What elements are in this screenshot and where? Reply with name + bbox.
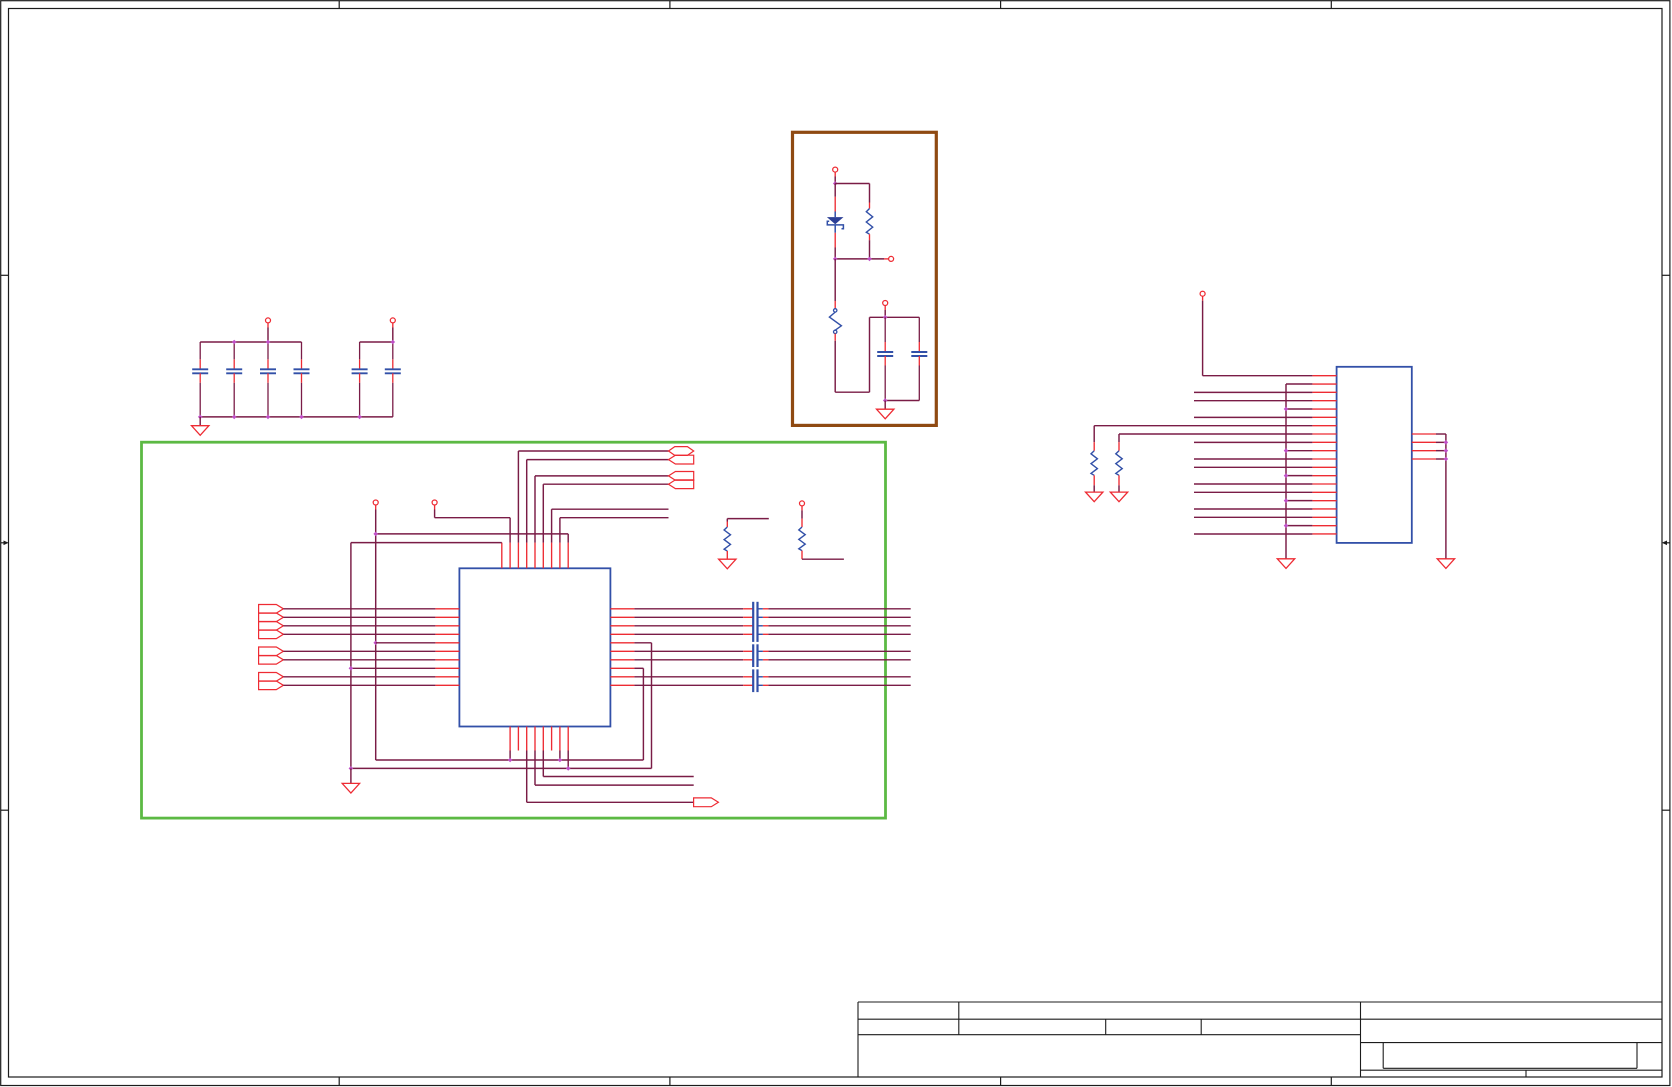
wire series cap 10 out (758, 684, 911, 686)
power port P1 (266, 318, 271, 342)
border mid-right arrow marker (1662, 541, 1670, 546)
wire U1 pin B8 to rail2 (567, 751, 569, 769)
wire U1 pin T5 to arrow (535, 476, 669, 543)
wire U1 right pin 10 to series cap (634, 684, 753, 686)
wire U1 pin T6 to arrow (543, 484, 668, 542)
wire U2 pin 4 (1194, 400, 1312, 402)
wire series cap 7 out (758, 659, 911, 661)
wire U2 pin 2 to bus (1286, 383, 1312, 385)
capacitor C7 (877, 317, 893, 400)
wire thermistor to cap rail (835, 317, 919, 392)
wire U1 right pin 3 to series cap (634, 625, 753, 627)
junction dot P7 L5 (373, 641, 378, 646)
junction dot brown bottom rail (883, 398, 888, 403)
power port P8 (800, 501, 805, 511)
net arrow L1 output (259, 605, 284, 614)
wire U2 pin 9 (1194, 441, 1312, 443)
thermistor R2 (829, 259, 841, 392)
wire U1 right pin 8 down (634, 668, 643, 760)
wire U1 pin B7 to rail1 (559, 751, 561, 761)
wire U1 left pin 5 from P7 (376, 642, 436, 644)
wire series cap 1 out (758, 608, 911, 610)
ground cap bank (192, 417, 209, 435)
wire top rail right group (360, 341, 393, 343)
wire vertical net x350 (350, 543, 352, 769)
junction dots cap bank top rail (232, 340, 395, 345)
net arrow L7 output (259, 656, 284, 665)
power port P5 (883, 301, 888, 318)
junction dots mid rail (833, 257, 872, 262)
wire U1 pin T4 to arrow (527, 460, 669, 543)
wire U1 right pin 7 to series cap (634, 659, 753, 661)
wire U1 right pin 1 to series cap (634, 608, 753, 610)
wire P7 vertical net (375, 510, 377, 761)
wire U1 left pin 6 (283, 650, 435, 652)
net arrow A5 output (694, 798, 719, 807)
power port P6 (432, 500, 437, 505)
wire U1 left pin 7 (283, 659, 435, 661)
net arrow L10 output (259, 681, 284, 690)
junction dots U2 bus (1284, 407, 1289, 528)
green highlight box (142, 442, 886, 818)
IC U2 (1337, 367, 1412, 543)
wire series cap 9 out (758, 676, 911, 678)
wire U1 bottom rail1 (376, 759, 644, 761)
wire U1 pin T8 stub (560, 518, 669, 543)
wire U2 pin 10 to bus (1286, 450, 1312, 452)
net arrow L6 output (259, 647, 284, 656)
power port P2 (390, 318, 395, 342)
power port P7 (373, 500, 378, 510)
wire U1 pin B4 stub (535, 751, 694, 786)
power port P9 (1200, 291, 1205, 301)
border mid-left arrow marker (1, 541, 9, 546)
net arrow A2 input (669, 455, 694, 464)
wire U2 pin 5 to bus (1286, 408, 1312, 410)
capacitor C1 (192, 342, 208, 417)
net arrow A4 input (669, 480, 694, 489)
junction dot P7 T9 (373, 532, 378, 537)
net arrow L4 output (259, 630, 284, 639)
U1 top pin stubs (502, 543, 568, 569)
wire U2 pin 14 (1194, 483, 1312, 485)
net arrow L2 output (259, 613, 284, 622)
wire top rail left group (200, 341, 301, 343)
wire U2 pin 17 (1194, 508, 1312, 510)
wire U1 pin T2 route to port (435, 505, 511, 542)
wire U1 left pin 9 (283, 676, 435, 678)
junction dots U2 right (1444, 440, 1449, 461)
wire U1 left pin 3 (283, 625, 435, 627)
wire top rail diode section (835, 183, 869, 185)
resistor R6 with ground (1110, 434, 1127, 502)
wire mid rail diode section (835, 258, 888, 260)
wire series cap 6 out (758, 650, 911, 652)
wire U2 pin 18 (1194, 516, 1312, 518)
power port P4 (889, 256, 894, 261)
net arrow L9 output (259, 673, 284, 682)
wire P9 to U2 pin1 (1203, 301, 1313, 376)
wire U1 left pin 10 (283, 684, 435, 686)
wire U1 pin B3 to arrow (527, 751, 694, 803)
U2 ground bus vertical (1285, 384, 1287, 559)
capacitor C3 (260, 342, 276, 417)
capacitor C5 (352, 342, 368, 417)
U2 left pin stubs (1312, 376, 1336, 534)
junction dot below P3 (833, 181, 838, 186)
wire U1 right pin 6 to series cap (634, 650, 753, 652)
wire U1 left pin 8 from vertical (351, 667, 436, 669)
wire U1 right pin 2 to series cap (634, 616, 753, 618)
wire U2 pin 6 (1194, 416, 1312, 418)
wire U1 right pin 9 to series cap (634, 676, 753, 678)
capacitor C4 (294, 342, 310, 417)
ground U2 bus (1277, 559, 1294, 569)
power port P3 (833, 167, 838, 183)
U2 right pin stubs (1412, 434, 1436, 459)
zener diode D1 (827, 184, 844, 259)
ground brown box (877, 401, 894, 419)
resistor R4 (799, 510, 844, 559)
wire U2 right pins to vertical (1436, 434, 1446, 459)
U1 left pin stubs (435, 609, 459, 686)
brown highlight box (793, 132, 937, 425)
wire U1 left pin 2 (283, 616, 435, 618)
resistor R5 with ground (1086, 426, 1103, 502)
wire U1 pin T3 to arrow (518, 451, 668, 543)
net arrow A1 bidirectional (669, 447, 694, 456)
wire U2 pin 20 (1194, 533, 1312, 535)
ground green box left (342, 768, 359, 793)
U1 bottom pin stubs (510, 727, 568, 751)
wire bottom rail (200, 416, 393, 418)
wire U2 pin 13 to bus (1286, 475, 1312, 477)
wire U1 right pin 5 down (634, 643, 651, 769)
wire U1 pin T9 route (376, 534, 569, 543)
wire U2 pin 19 to bus (1286, 525, 1312, 527)
wire U1 pin B5 stub (543, 751, 693, 777)
capacitor C6 (385, 342, 401, 417)
wire U2 pin 7 to R5 (1094, 425, 1312, 427)
net arrow A3 input (669, 472, 694, 481)
wire U1 right pin 4 to series cap (634, 633, 753, 635)
capacitor C8 (911, 317, 927, 400)
junction dots rail1 (508, 758, 562, 763)
wire U1 pin T7 stub (552, 509, 669, 542)
ground U2 right (1437, 559, 1454, 569)
wire U2 pin 15 (1194, 491, 1312, 493)
wire U2 pin 11 (1194, 458, 1312, 460)
U1 right pin stubs (610, 609, 634, 686)
title block grid (858, 1002, 1662, 1077)
wire U2 pin 12 (1194, 466, 1312, 468)
net arrow L3 output (259, 622, 284, 631)
capacitor C2 (226, 342, 242, 417)
wire U1 pin T1 route (351, 542, 502, 544)
wire series cap 4 out (758, 633, 911, 635)
wire U1 pin B1 to rail1 (509, 751, 511, 761)
wire brown box bottom rail (885, 400, 919, 402)
resistor R1 (866, 184, 872, 259)
wire U1 left pin 1 (283, 608, 435, 610)
series coupling cap plates (753, 602, 757, 692)
junction dots cap bank bottom rail (198, 415, 362, 420)
junction dot x350 L8 (349, 666, 354, 671)
wire U1 bottom rail2 (351, 767, 652, 769)
wire U1 left pin 4 (283, 633, 435, 635)
junction dots rail2 (349, 766, 571, 771)
main IC U1 (459, 568, 610, 726)
wire U2 pin 3 (1194, 391, 1312, 393)
resistor R3 with ground (719, 519, 769, 569)
wire series cap 3 out (758, 625, 911, 627)
wire U2 pin 16 to bus (1286, 500, 1312, 502)
wire U2 pin 8 to R6 (1119, 433, 1312, 435)
wire series cap 2 out (758, 616, 911, 618)
junction dot P5 rail (883, 315, 888, 320)
wire U2 right vertical (1445, 434, 1447, 559)
